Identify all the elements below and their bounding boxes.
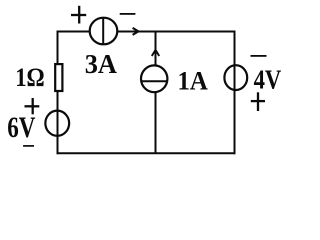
- svg-text:1Ω: 1Ω: [15, 62, 45, 92]
- resistor R1 1 ohm (box): [55, 64, 62, 91]
- wire: left branch vertical: [57, 31, 59, 155]
- wire: middle branch vertical (1A): [155, 32, 157, 154]
- voltage source V1 6V (circle, wire passes through): [45, 111, 69, 136]
- polarity plus sign above 6V: [25, 98, 40, 114]
- wire: bottom rail: [57, 152, 236, 154]
- svg-text:1A: 1A: [178, 65, 209, 95]
- polarity minus sign above 4V: [251, 55, 267, 57]
- svg-text:4V: 4V: [254, 65, 282, 96]
- current source I1 3A (circle with vertical bar): [90, 18, 118, 45]
- wire: right branch vertical: [234, 31, 236, 155]
- svg-text:3A: 3A: [85, 49, 118, 79]
- polarity plus sign below 4V: [251, 92, 265, 111]
- current direction arrow on top wire (pointing right): [133, 28, 139, 35]
- polarity minus sign below 6V: [23, 145, 34, 147]
- wire: top-left segment from corner to 3A source: [58, 31, 90, 33]
- polarity plus sign left of 3A: [71, 6, 86, 24]
- voltage source V2 4V (circle, wire passes through): [224, 65, 247, 90]
- svg-text:6V: 6V: [7, 111, 36, 144]
- wire: top segment from 3A to top-right corner: [118, 31, 236, 33]
- current direction arrow on middle branch (pointing up): [152, 50, 159, 56]
- current source I2 1A (circle with horizontal bar): [141, 65, 168, 92]
- polarity minus sign right of 3A: [120, 13, 136, 15]
